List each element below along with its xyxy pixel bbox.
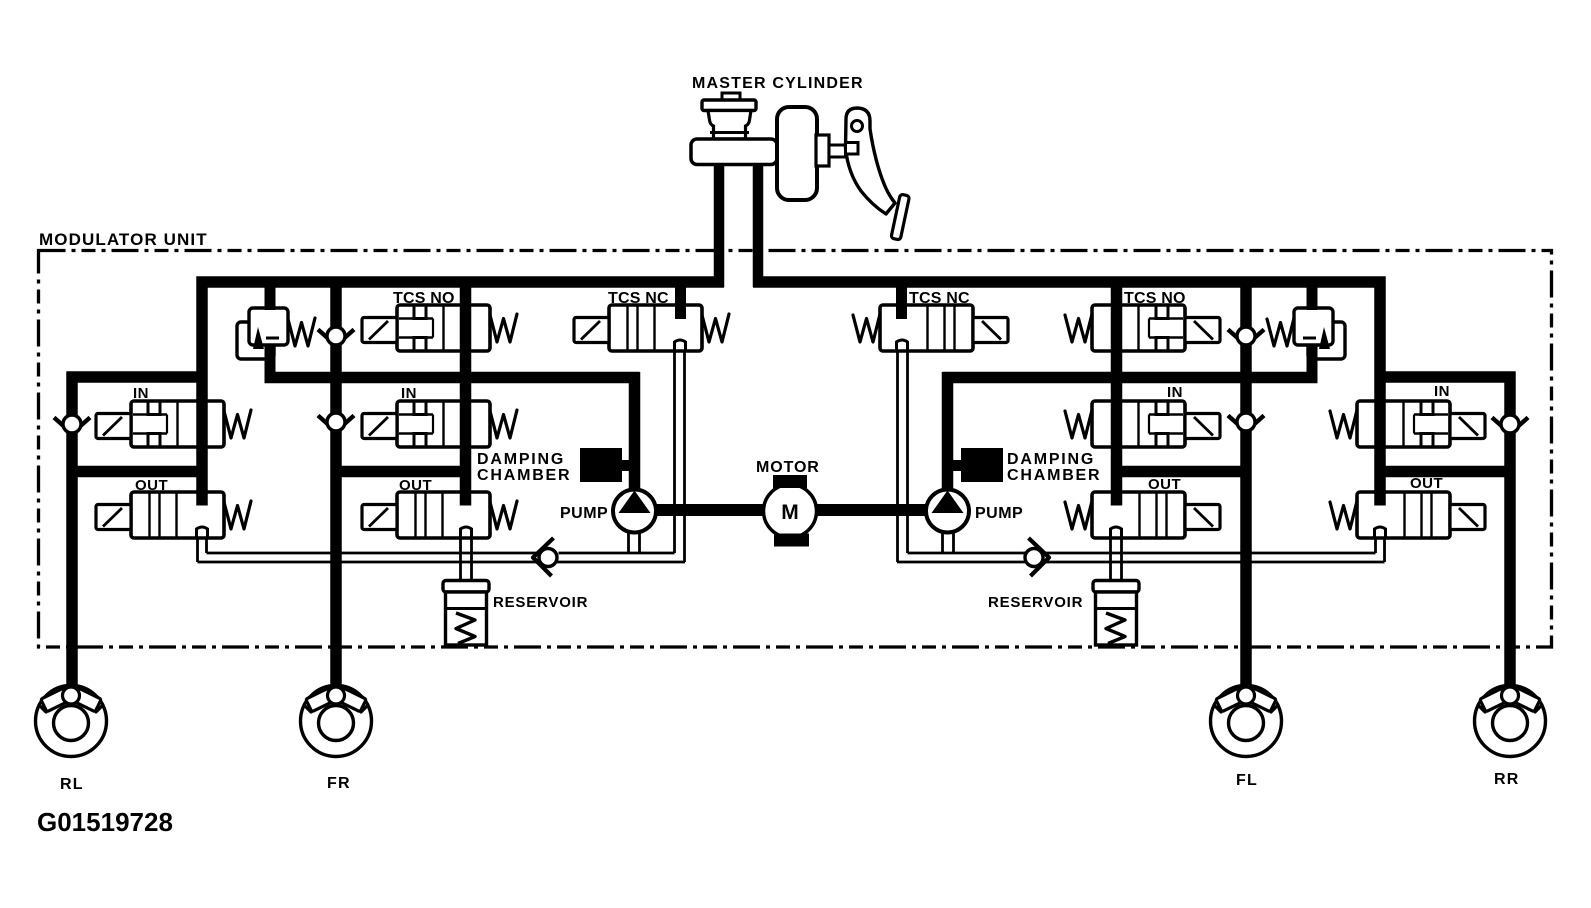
solenoid valve TCS NC left xyxy=(574,305,729,351)
label RR xyxy=(1494,771,1520,788)
solenoid valve IN (RR) xyxy=(1330,401,1485,447)
label FL xyxy=(1236,772,1258,789)
main trunk line left xyxy=(197,276,725,288)
label OUT (FR) xyxy=(399,477,432,494)
svg-text:CHAMBER: CHAMBER xyxy=(477,467,571,484)
svg-text:TCS NC: TCS NC xyxy=(909,290,970,307)
label IN (FL) xyxy=(1167,384,1183,401)
branch line E right (TCS NO / FL column) xyxy=(1111,277,1123,506)
solenoid valve OUT (FL) xyxy=(1065,492,1220,538)
damping chamber stub left xyxy=(619,460,631,471)
pump right xyxy=(926,490,969,533)
solenoid valve IN (FL) xyxy=(1065,401,1220,447)
svg-text:TCS NO: TCS NO xyxy=(1124,290,1186,307)
solenoid valve IN (FR) xyxy=(362,401,517,447)
damping chamber stub right xyxy=(951,460,963,471)
label TCS NO left xyxy=(393,290,455,307)
label RL xyxy=(60,776,84,793)
label MOTOR xyxy=(756,459,820,476)
svg-text:PUMP: PUMP xyxy=(560,505,608,522)
svg-text:FR: FR xyxy=(327,775,351,792)
main trunk line right xyxy=(753,276,1386,288)
svg-text:IN: IN xyxy=(1167,384,1183,401)
modulator unit dashed enclosure xyxy=(39,251,1552,648)
relief valve stubs left xyxy=(265,282,276,378)
svg-text:RESERVOIR: RESERVOIR xyxy=(493,594,588,611)
brake pedal xyxy=(846,108,910,240)
master cylinder outlet pipe right xyxy=(753,160,764,287)
label TCS NC right xyxy=(909,290,970,307)
pump-motor shaft left xyxy=(655,504,766,516)
figure number G01519728 xyxy=(37,807,173,837)
label IN (RL) xyxy=(133,385,149,402)
label PUMP left xyxy=(560,505,608,522)
check valve RL line xyxy=(54,415,90,434)
svg-text:FL: FL xyxy=(1236,772,1258,789)
svg-text:DAMPING: DAMPING xyxy=(477,451,565,468)
svg-text:IN: IN xyxy=(1434,383,1450,400)
damping header line right xyxy=(943,372,1318,384)
svg-text:MODULATOR UNIT: MODULATOR UNIT xyxy=(39,230,208,249)
header line H1 left xyxy=(67,371,208,383)
wheel line RL xyxy=(66,372,78,690)
label DAMPING CHAMBER left xyxy=(477,451,571,484)
solenoid valve OUT (RR) xyxy=(1330,492,1485,538)
solenoid valve TCS NO right xyxy=(1065,305,1220,351)
svg-text:PUMP: PUMP xyxy=(975,505,1023,522)
label PUMP right xyxy=(975,505,1023,522)
pump left xyxy=(613,490,656,533)
svg-text:IN: IN xyxy=(133,385,149,402)
label OUT (RL) xyxy=(135,477,168,494)
label OUT (FL) xyxy=(1148,476,1181,493)
wheel RL (brake disc) xyxy=(36,686,107,757)
branch line E (TCS NO / FR column) xyxy=(460,277,472,506)
label TCS NO right xyxy=(1124,290,1186,307)
relief valve left xyxy=(237,308,315,359)
reservoir right xyxy=(1093,581,1139,646)
svg-text:G01519728: G01519728 xyxy=(37,807,173,837)
solenoid valve TCS NO left xyxy=(362,305,517,351)
label RESERVOIR right xyxy=(988,594,1083,611)
check valve suction left xyxy=(533,538,557,576)
svg-text:RR: RR xyxy=(1494,771,1520,788)
solenoid valve IN (RL) xyxy=(96,401,251,447)
out header line left (FR) xyxy=(331,466,471,478)
svg-text:RESERVOIR: RESERVOIR xyxy=(988,594,1083,611)
wheel line RR xyxy=(1504,372,1516,690)
check valve FL in-row xyxy=(1228,413,1264,432)
svg-text:RL: RL xyxy=(60,776,84,793)
label MASTER CYLINDER xyxy=(692,75,864,92)
label IN (FR) xyxy=(401,385,417,402)
wheel RR (brake disc) xyxy=(1475,686,1546,757)
svg-text:M: M xyxy=(781,501,799,524)
solenoid valve OUT (RL) xyxy=(96,492,251,538)
label DAMPING CHAMBER right xyxy=(1007,451,1101,484)
damping header line left xyxy=(265,372,640,384)
motor M xyxy=(764,475,817,547)
relief valve stubs right xyxy=(1307,282,1318,378)
wheel FR (brake disc) xyxy=(301,686,372,757)
check valve FL trunk xyxy=(1228,327,1264,346)
TCS NC right inlet stub xyxy=(896,282,907,319)
svg-text:IN: IN xyxy=(401,385,417,402)
TCS NC left inlet stub xyxy=(675,282,686,319)
svg-text:DAMPING: DAMPING xyxy=(1007,451,1095,468)
solenoid valve TCS NC right xyxy=(853,305,1008,351)
label IN (RR) xyxy=(1434,383,1450,400)
return pipe network (thin suction lines) xyxy=(198,352,1385,580)
master cylinder outlet pipe left xyxy=(714,160,725,287)
relief valve right xyxy=(1267,308,1345,359)
svg-text:CHAMBER: CHAMBER xyxy=(1007,467,1101,484)
label OUT (RR) xyxy=(1410,475,1443,492)
damping chamber right (block) xyxy=(961,448,1003,482)
pump-motor shaft right xyxy=(814,504,926,516)
branch line A right (RR column) xyxy=(1374,277,1386,506)
header line H1 right xyxy=(1375,371,1516,383)
svg-text:OUT: OUT xyxy=(1410,475,1443,492)
wheel line FR xyxy=(330,277,342,689)
pump left inlet column xyxy=(629,372,641,492)
label FR xyxy=(327,775,351,792)
svg-text:OUT: OUT xyxy=(1148,476,1181,493)
label TCS NC left xyxy=(608,290,669,307)
label RESERVOIR left xyxy=(493,594,588,611)
svg-text:OUT: OUT xyxy=(399,477,432,494)
wheel FL (brake disc) xyxy=(1211,686,1282,757)
master cylinder assembly xyxy=(691,93,847,200)
check valve RR line xyxy=(1492,415,1528,434)
out header line right (RR) xyxy=(1375,466,1516,478)
branch line A (RL column) xyxy=(196,277,208,506)
svg-text:MOTOR: MOTOR xyxy=(756,459,820,476)
out header line left (RL) xyxy=(67,466,208,478)
svg-text:MASTER CYLINDER: MASTER CYLINDER xyxy=(692,75,864,92)
svg-text:TCS NC: TCS NC xyxy=(608,290,669,307)
out header line right (FL) xyxy=(1112,466,1252,478)
damping chamber left (block) xyxy=(580,448,622,482)
wheel line FL xyxy=(1240,277,1252,689)
check valve FR in-row xyxy=(318,413,354,432)
solenoid valve OUT (FR) xyxy=(362,492,517,538)
check valve suction right xyxy=(1025,538,1049,576)
pump right inlet column xyxy=(942,372,954,492)
svg-text:OUT: OUT xyxy=(135,477,168,494)
svg-text:TCS NO: TCS NO xyxy=(393,290,455,307)
label MODULATOR UNIT xyxy=(39,230,208,249)
check valve FR trunk xyxy=(318,327,354,346)
reservoir left xyxy=(443,581,489,646)
